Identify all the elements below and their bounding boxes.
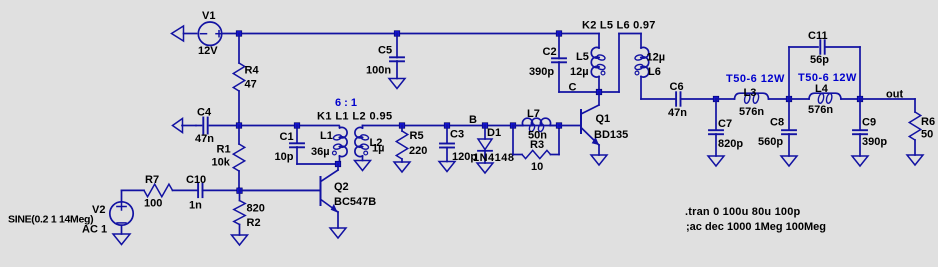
capacitor C11: [789, 40, 860, 99]
node C junction: [596, 89, 602, 95]
inductor L7: [513, 118, 559, 132]
label K1 directive: [317, 111, 393, 123]
label C5: [378, 45, 392, 57]
label 10k: [212, 157, 231, 169]
svg-text:L1: L1: [320, 130, 333, 142]
label C6: [670, 81, 684, 93]
resistor R6: [909, 112, 920, 155]
wire to Q2 base: [240, 189, 321, 191]
svg-text:T50-6 12W: T50-6 12W: [726, 73, 785, 85]
comment T50-6 12W (L3): [726, 73, 785, 85]
svg-text:1n: 1n: [189, 200, 202, 212]
ground R6: [907, 155, 923, 165]
resistor R1: [233, 126, 244, 191]
capacitor C1: [290, 126, 338, 165]
svg-text:1µ: 1µ: [372, 143, 384, 155]
svg-text:SINE(0.2 1 14Meg): SINE(0.2 1 14Meg): [8, 214, 93, 226]
label out: [886, 89, 903, 101]
label R4: [245, 65, 260, 77]
wire V1 to top rail: [222, 33, 239, 35]
svg-text:47n: 47n: [195, 133, 214, 145]
svg-text:47n: 47n: [668, 107, 687, 119]
node L4-C9 junction: [857, 96, 863, 102]
wire out: [860, 99, 915, 112]
svg-text:C2: C2: [543, 46, 557, 58]
svg-text:56p: 56p: [810, 54, 829, 66]
svg-text:AC 1: AC 1: [82, 224, 107, 236]
label R1: [217, 144, 231, 156]
capacitor C6: [641, 92, 716, 106]
resistor R4: [233, 34, 244, 126]
label C4: [197, 107, 212, 119]
svg-text:D1: D1: [487, 127, 501, 139]
svg-text:V1: V1: [202, 10, 215, 22]
label Q1: [596, 113, 611, 125]
label R6: [921, 116, 935, 128]
label V1: [202, 10, 215, 22]
svg-text:6 : 1: 6 : 1: [335, 97, 357, 109]
svg-text:C9: C9: [862, 117, 876, 129]
svg-text:Q2: Q2: [334, 181, 349, 193]
label 1n: [189, 200, 202, 212]
svg-text:R6: R6: [921, 116, 935, 128]
svg-text:L4: L4: [815, 83, 829, 95]
svg-text:C11: C11: [808, 30, 828, 42]
diode D1: [478, 126, 492, 164]
capacitor C9: [853, 99, 867, 156]
ground C7: [708, 156, 724, 166]
svg-text:560p: 560p: [758, 136, 783, 148]
label 576n L4: [808, 104, 833, 116]
svg-text:50: 50: [921, 129, 933, 141]
label D1: [487, 127, 501, 139]
label L3: [744, 87, 757, 99]
node C1 junction: [294, 123, 300, 129]
label K2 directive: [582, 20, 656, 32]
capacitor C8: [782, 99, 796, 156]
label L5: [576, 51, 589, 63]
label 560p: [758, 136, 783, 148]
svg-text:36µ: 36µ: [311, 146, 330, 158]
svg-text:BC547B: BC547B: [334, 196, 376, 208]
label C2: [543, 46, 557, 58]
svg-text:R4: R4: [245, 65, 260, 77]
ground Q2: [330, 228, 346, 238]
inductor L6: [634, 34, 648, 100]
node L3-L4 junction: [786, 96, 792, 102]
label L7: [527, 108, 540, 120]
svg-text:;ac dec 1000 1Meg 100Meg: ;ac dec 1000 1Meg 100Meg: [686, 221, 826, 233]
ground R5: [394, 162, 410, 172]
directive .tran: [685, 206, 801, 218]
label L4: [815, 83, 829, 95]
svg-text:C6: C6: [670, 81, 684, 93]
svg-text:10k: 10k: [212, 157, 231, 169]
comment 6 : 1: [335, 97, 357, 109]
svg-text:C8: C8: [770, 117, 784, 129]
svg-text:10: 10: [531, 161, 543, 173]
label R2: [247, 217, 261, 229]
svg-text:12V: 12V: [198, 45, 218, 57]
svg-text:R7: R7: [145, 174, 159, 186]
label 47n C4: [195, 133, 214, 145]
svg-text:820: 820: [247, 203, 265, 215]
wire node C: [559, 34, 641, 93]
label 12V: [198, 45, 218, 57]
ground (left of C4): [173, 119, 197, 133]
ground C8: [781, 156, 797, 166]
label C1: [280, 131, 294, 143]
label Q2: [334, 181, 349, 193]
resistor R5: [396, 126, 407, 163]
label C8: [770, 117, 784, 129]
svg-text:K2 L5 L6 0.97: K2 L5 L6 0.97: [582, 20, 656, 32]
svg-text:R2: R2: [247, 217, 261, 229]
label C3: [450, 129, 464, 141]
resistor R2: [234, 190, 245, 235]
node L7 left junction: [510, 123, 516, 129]
ground C5: [389, 79, 405, 89]
node R5 junction: [399, 123, 405, 129]
node top-R4 junction: [236, 31, 242, 37]
capacitor C7: [709, 99, 723, 156]
label 10p: [275, 151, 294, 163]
comment T50-6 12W (L4): [798, 72, 857, 84]
wire mid rail: [239, 125, 339, 127]
node C3 junction: [444, 123, 450, 129]
label 390p: [529, 66, 554, 78]
capacitor C3: [440, 126, 454, 162]
capacitor C2: [552, 34, 566, 93]
label 100: [144, 198, 162, 210]
label 50n: [528, 130, 547, 142]
inductor L3: [716, 93, 789, 104]
svg-text:1N4148: 1N4148: [473, 152, 515, 164]
label 1u: [372, 143, 384, 155]
label B: [469, 114, 477, 126]
label 10: [531, 161, 543, 173]
svg-text:out: out: [886, 89, 903, 101]
transistor Q1: [559, 92, 599, 155]
label C: [569, 82, 577, 94]
ground R2: [232, 235, 248, 245]
svg-text:C5: C5: [378, 45, 392, 57]
svg-text:220: 220: [409, 145, 427, 157]
label C9: [862, 117, 876, 129]
node top-C5 junction: [394, 31, 400, 37]
svg-text:C10: C10: [186, 174, 206, 186]
label 576n L3: [739, 106, 764, 118]
label R3: [530, 139, 544, 151]
label C10: [186, 174, 206, 186]
node D1 junction: [482, 123, 488, 129]
label 390p C9: [862, 136, 887, 148]
label 56p: [810, 54, 829, 66]
ground C3: [439, 162, 455, 172]
label L6: [648, 66, 661, 78]
label 820p: [718, 138, 743, 150]
ground D1: [477, 163, 493, 173]
label C11: [808, 30, 828, 42]
voltage source V1: [198, 22, 222, 45]
node L7 right junction: [556, 123, 562, 129]
ground C9: [852, 156, 868, 166]
voltage source V2: [110, 190, 133, 225]
capacitor C5: [390, 34, 404, 79]
svg-text:C4: C4: [197, 107, 212, 119]
svg-text:BD135: BD135: [594, 129, 628, 141]
svg-text:100n: 100n: [366, 65, 391, 77]
svg-text:Q1: Q1: [596, 113, 611, 125]
ground V2: [113, 225, 130, 244]
label 120p: [452, 151, 477, 163]
label 820: [247, 203, 265, 215]
node C4-R1 junction: [236, 123, 242, 129]
label R5: [410, 130, 424, 142]
node top-C2 junction: [556, 31, 562, 37]
svg-text:.tran 0 100u 80u 100p: .tran 0 100u 80u 100p: [685, 206, 801, 218]
capacitor C4: [196, 118, 239, 134]
svg-text:47: 47: [245, 79, 257, 91]
inductor L1: [333, 126, 348, 165]
svg-text:R3: R3: [530, 139, 544, 151]
wire mid rail right: [363, 125, 560, 127]
label BC547B: [334, 196, 376, 208]
inductor L4: [789, 93, 860, 104]
wire top rail: [239, 33, 599, 35]
label 50: [921, 129, 933, 141]
svg-text:12µ: 12µ: [647, 52, 666, 64]
svg-text:576n: 576n: [808, 104, 833, 116]
svg-text:C7: C7: [718, 118, 732, 130]
node L1-C1-Q2 junction: [335, 161, 341, 167]
label 220: [409, 145, 427, 157]
label AC 1: [82, 224, 107, 236]
svg-text:L3: L3: [744, 87, 757, 99]
label 47: [245, 79, 257, 91]
ground L2: [355, 161, 371, 171]
svg-text:10p: 10p: [275, 151, 294, 163]
label V2: [92, 204, 105, 216]
capacitor C10: [198, 184, 239, 198]
label R7: [145, 174, 159, 186]
label BD135: [594, 129, 628, 141]
inductor L2: [355, 126, 369, 161]
label C7: [718, 118, 732, 130]
svg-text:390p: 390p: [862, 136, 887, 148]
svg-text:L6: L6: [648, 66, 661, 78]
ground Q1: [591, 155, 607, 165]
label L1: [320, 130, 333, 142]
svg-text:K1 L1 L2 0.95: K1 L1 L2 0.95: [317, 111, 393, 123]
svg-text:V2: V2: [92, 204, 105, 216]
label L2: [370, 137, 383, 149]
label 100n: [366, 65, 391, 77]
label 1N4148: [473, 152, 515, 164]
inductor L5: [591, 34, 605, 93]
label 12u L6: [647, 52, 666, 64]
ground (left of V1): [172, 26, 197, 41]
label 12u L5: [570, 66, 589, 78]
svg-text:820p: 820p: [718, 138, 743, 150]
svg-text:576n: 576n: [739, 106, 764, 118]
directive ;ac: [686, 221, 826, 233]
svg-text:B: B: [469, 114, 477, 126]
resistor R3: [513, 126, 559, 159]
svg-text:C3: C3: [450, 129, 464, 141]
svg-text:390p: 390p: [529, 66, 554, 78]
svg-text:12µ: 12µ: [570, 66, 589, 78]
svg-text:L7: L7: [527, 108, 540, 120]
svg-text:C1: C1: [280, 131, 294, 143]
label SINE: [8, 214, 93, 226]
label 36u: [311, 146, 330, 158]
transistor Q2: [240, 164, 339, 228]
svg-text:R1: R1: [217, 144, 231, 156]
svg-text:C: C: [569, 82, 577, 94]
node R2 junction: [237, 188, 243, 194]
svg-text:L5: L5: [576, 51, 589, 63]
node C6-C7 junction: [713, 96, 719, 102]
resistor R7: [122, 184, 198, 197]
svg-text:100: 100: [144, 198, 162, 210]
svg-text:R5: R5: [410, 130, 424, 142]
label 47n: [668, 107, 687, 119]
